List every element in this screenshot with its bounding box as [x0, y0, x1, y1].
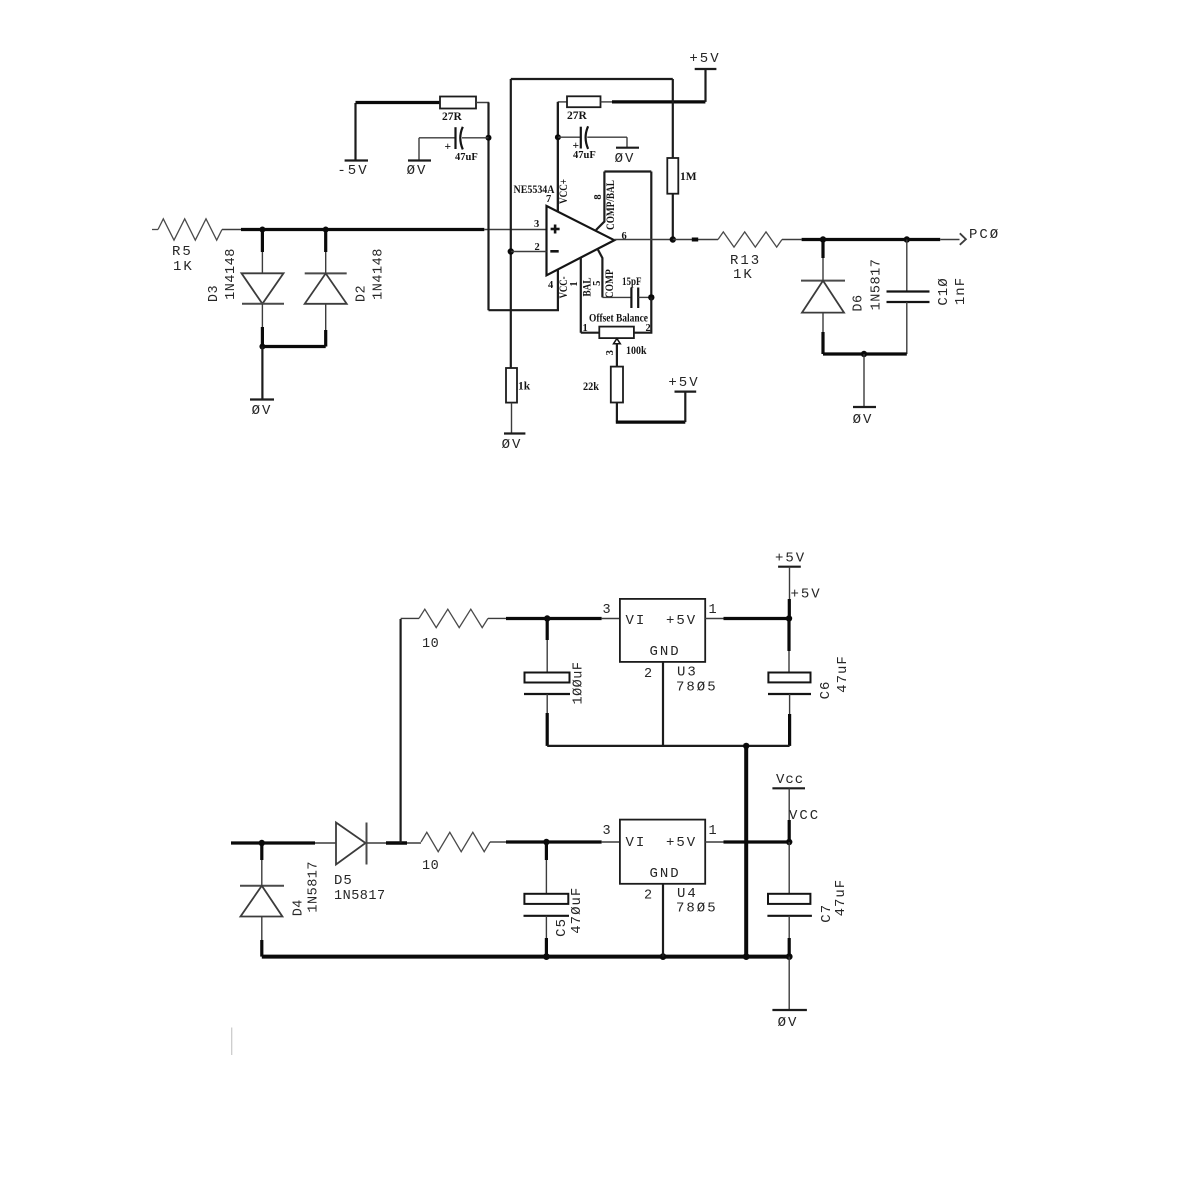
resistor 1k [506, 368, 531, 403]
wire 0V bottom rail [262, 955, 789, 959]
wire U4 out to Vcc rail [705, 841, 789, 843]
svg-text:1: 1 [583, 323, 588, 334]
svg-text:27R: 27R [567, 110, 588, 122]
wire U3 GND pin [662, 662, 664, 746]
node junction mid vertical bottom [743, 953, 750, 960]
wire R5 to op-amp pin 3 [222, 229, 547, 231]
svg-text:1: 1 [709, 824, 718, 839]
svg-text:1: 1 [709, 603, 718, 618]
diode D3 [207, 230, 284, 347]
supply +5V top [689, 51, 720, 102]
node junction C6 top [786, 615, 792, 621]
capacitor 47uF right (polarized) [558, 126, 627, 161]
capacitor 15pF [602, 276, 651, 308]
resistor 27R left [440, 97, 476, 124]
svg-text:ØV: ØV [252, 403, 273, 419]
node junction U4 GND bottom [660, 953, 667, 960]
svg-text:D2: D2 [355, 285, 370, 302]
wire R13 to PC0 [782, 239, 960, 241]
node junction C7 top [786, 839, 792, 845]
regulator U4 7805 [603, 820, 718, 917]
pin 7 VCC+ [546, 102, 570, 212]
resistor 10 upper [401, 609, 488, 652]
svg-text:R5: R5 [172, 244, 193, 260]
node junction C7 bottom [786, 953, 793, 960]
resistor R13 [718, 232, 782, 283]
svg-text:Vcc: Vcc [776, 772, 804, 788]
resistor 27R right [558, 96, 601, 122]
svg-text:3: 3 [603, 824, 612, 839]
svg-text:+5V: +5V [668, 375, 699, 391]
node junction 15pF right [648, 294, 654, 300]
svg-text:4: 4 [548, 280, 554, 291]
svg-text:1N4148: 1N4148 [372, 248, 387, 300]
diode D4 [240, 843, 321, 957]
resistor 10 lower [421, 832, 490, 874]
svg-text:47uF: 47uF [455, 152, 478, 163]
node junction mid rail [743, 743, 749, 749]
node junction D4 [259, 840, 265, 846]
wire U3 out to +5V rail [705, 618, 789, 620]
svg-text:2: 2 [644, 889, 653, 904]
svg-text:ØV: ØV [502, 437, 523, 453]
svg-text:1N5817: 1N5817 [334, 889, 386, 904]
svg-text:C6: C6 [818, 681, 834, 700]
svg-text:-5V: -5V [337, 163, 368, 179]
svg-text:D6: D6 [852, 294, 867, 311]
svg-text:7: 7 [546, 194, 551, 205]
wire comp box top [604, 170, 651, 172]
svg-text:GND: GND [650, 644, 681, 660]
svg-text:1k: 1k [518, 381, 531, 393]
capacitor C10 [887, 240, 970, 355]
resistor 1M [667, 79, 696, 240]
svg-text:D5: D5 [334, 873, 353, 889]
capacitor 100uF [524, 619, 587, 746]
wire VCC- loop to pin 4 [489, 270, 558, 311]
capacitor C5 [524, 842, 585, 957]
pin 6 output [614, 231, 673, 242]
node junction output [670, 236, 676, 242]
ground 0V bottom [772, 957, 807, 1031]
potentiometer 100k Offset Balance [581, 297, 652, 366]
svg-text:1N5817: 1N5817 [306, 861, 321, 913]
diode D2 [305, 230, 387, 347]
supply -5V [337, 103, 368, 179]
svg-text:15pF: 15pF [622, 276, 642, 288]
wire 27R to VCC- rail [476, 102, 489, 105]
svg-text:5: 5 [592, 281, 603, 286]
svg-text:47ØuF: 47ØuF [569, 887, 585, 934]
svg-text:100k: 100k [626, 345, 647, 357]
node junction D3 top [259, 227, 265, 233]
capacitor C7 [767, 842, 849, 957]
svg-text:2: 2 [644, 667, 653, 682]
svg-text:1K: 1K [173, 259, 194, 275]
regulator U3 7805 [603, 599, 718, 696]
wire D6-C10 bottom [823, 352, 907, 355]
wire U4 GND pin [662, 884, 664, 957]
supply +5V pot [668, 375, 699, 392]
node junction 47uF left [486, 135, 492, 141]
ground 0V under 1k [502, 403, 526, 453]
svg-text:VI: VI [626, 613, 647, 629]
svg-text:C1Ø: C1Ø [936, 277, 952, 305]
svg-text:+5V: +5V [666, 835, 697, 851]
node junction D2 top [323, 227, 329, 233]
diode D5 [334, 823, 421, 905]
wire 27R right to +5V [601, 101, 613, 103]
svg-text:1nF: 1nF [953, 277, 969, 305]
svg-text:6: 6 [622, 231, 627, 242]
svg-text:3: 3 [534, 219, 539, 230]
wire mid vertical to 0V rail [744, 746, 748, 957]
svg-text:ØV: ØV [853, 412, 874, 428]
wire 22k to +5V [616, 403, 618, 422]
supply Vcc [772, 772, 820, 842]
capacitor 47uF left (C, polarized) [419, 127, 489, 163]
svg-text:27R: 27R [442, 111, 463, 123]
supply +5V rail [775, 551, 822, 619]
resistor R5 [152, 219, 222, 275]
svg-text:47uF: 47uF [573, 150, 596, 161]
svg-text:1N5817: 1N5817 [870, 259, 885, 311]
svg-text:D3: D3 [207, 285, 222, 302]
wire 10 to U3 [488, 617, 620, 619]
wire output to R13 [673, 239, 718, 241]
wire feedback vertical to pin 2 and 1k [510, 79, 512, 368]
svg-text:1N4148: 1N4148 [224, 248, 239, 300]
wire U3 bottom rail [547, 745, 789, 747]
node junction C5 top [543, 839, 549, 845]
svg-text:C5: C5 [554, 918, 570, 937]
wire feedback top [511, 78, 673, 80]
svg-text:BAL: BAL [581, 277, 593, 296]
node junction C5 bottom [543, 953, 550, 960]
svg-text:+5V: +5V [666, 613, 697, 629]
node junction 100uF [544, 615, 550, 621]
svg-text:ØV: ØV [615, 151, 636, 167]
ground 0V right cap [615, 137, 639, 167]
node PC0 arrow [960, 227, 1000, 245]
svg-text:2: 2 [646, 323, 651, 334]
svg-text:D4: D4 [292, 899, 307, 916]
ground 0V under D3 [250, 347, 274, 420]
svg-text:ØV: ØV [407, 163, 428, 179]
node junction diode bottoms [259, 344, 265, 350]
svg-text:1ØØuF: 1ØØuF [572, 661, 587, 704]
node junction bottom D6/C10 [861, 351, 867, 357]
svg-text:78Ø5: 78Ø5 [676, 680, 718, 696]
svg-text:47uF: 47uF [833, 879, 849, 917]
svg-text:1K: 1K [733, 267, 754, 283]
svg-text:3: 3 [605, 350, 616, 355]
junction dash [692, 238, 698, 242]
svg-text:78Ø5: 78Ø5 [676, 901, 718, 917]
svg-text:PCØ: PCØ [969, 227, 1000, 243]
capacitor C6 [768, 619, 851, 746]
wire pin 2 [511, 251, 547, 253]
svg-text:COMP/BAL: COMP/BAL [605, 180, 617, 230]
pin 1 BAL [569, 258, 594, 333]
wire pin7 junction vertical [557, 102, 559, 212]
scan artifact line [231, 1028, 233, 1056]
svg-text:22k: 22k [583, 381, 600, 393]
ground 0V left cap [407, 138, 431, 179]
svg-text:1M: 1M [680, 171, 697, 183]
svg-text:10: 10 [422, 637, 439, 652]
op-amp U1 NE5534A triangle [514, 184, 615, 275]
wire 10 to U4 [490, 841, 620, 843]
pin 4 VCC- [548, 276, 570, 298]
wire comp box right vertical [650, 172, 652, 298]
svg-text:47uF: 47uF [835, 655, 851, 693]
svg-text:ØV: ØV [778, 1015, 799, 1031]
node junction D6 top [820, 236, 826, 242]
node junction 47uF right [555, 134, 561, 140]
svg-text:1: 1 [569, 281, 580, 286]
svg-text:3: 3 [603, 603, 612, 618]
pin 5 COMP [592, 249, 616, 298]
node junction C10 top [904, 236, 910, 242]
svg-text:8: 8 [593, 194, 604, 199]
wire input left [231, 841, 315, 844]
wire -5V to 27R [356, 101, 441, 104]
svg-text:GND: GND [650, 866, 681, 882]
svg-text:+5V: +5V [775, 551, 806, 567]
svg-text:VCC+: VCC+ [558, 179, 570, 204]
svg-text:U3: U3 [677, 665, 698, 681]
svg-text:VI: VI [626, 835, 647, 851]
node junction pin 2 [508, 248, 514, 254]
diode D6 [801, 240, 885, 355]
wire D3-D2 bottom connector [262, 345, 325, 348]
wire VCC- vertical rail [487, 103, 489, 311]
svg-text:+: + [445, 141, 452, 153]
svg-text:COMP: COMP [604, 269, 616, 298]
pin 8 COMP/BAL [593, 172, 617, 231]
svg-text:+5V: +5V [791, 587, 822, 603]
wire link upper 10 to D5 node [400, 619, 402, 843]
svg-text:Offset Balance: Offset Balance [589, 313, 648, 325]
ground 0V under D6 [853, 354, 876, 428]
svg-text:VCC: VCC [789, 808, 820, 824]
resistor 22k [583, 367, 623, 403]
svg-text:10: 10 [422, 859, 439, 874]
svg-text:+5V: +5V [689, 51, 720, 67]
